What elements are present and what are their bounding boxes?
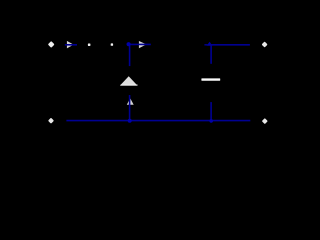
wire middle branch lower [129,95,131,121]
terminal port P2 (top-right diamond) [262,41,268,47]
current arrow on middle branch (white, pointing up) [127,98,134,105]
wire junction J1 to the right [129,43,151,45]
junction J2 (middle branch at bottom rail) [128,119,132,123]
junction J1 [127,42,131,46]
source terminal pin dot A [88,44,91,47]
wire bottom rail [66,120,250,122]
wire junction J1 down middle branch [129,44,131,66]
terminal port P4 (bottom-right diamond) [262,118,268,124]
diode D1 base highlight [121,85,138,86]
junction J3 (capacitor branch at bottom rail) [209,119,213,123]
wire capacitor branch upper [210,46,212,64]
wire capacitor branch lower [210,102,212,121]
current arrow on top-middle wire (white, pointing right) [139,41,147,48]
terminal port P3 (bottom-left diamond) [48,118,54,124]
wire top-right rail [210,44,250,46]
source terminal pin dot B [111,43,113,45]
capacitor C1 plate [201,78,220,80]
current arrow on source lead (white, pointing right) [67,41,74,49]
wire stub left of arrowhead [204,44,207,46]
wire from port to source terminal [65,44,77,46]
blue arrowhead at capacitor branch top [207,42,213,46]
diode D1 triangle (middle branch) [120,76,138,85]
terminal port P1 (top-left diamond) [48,41,55,48]
